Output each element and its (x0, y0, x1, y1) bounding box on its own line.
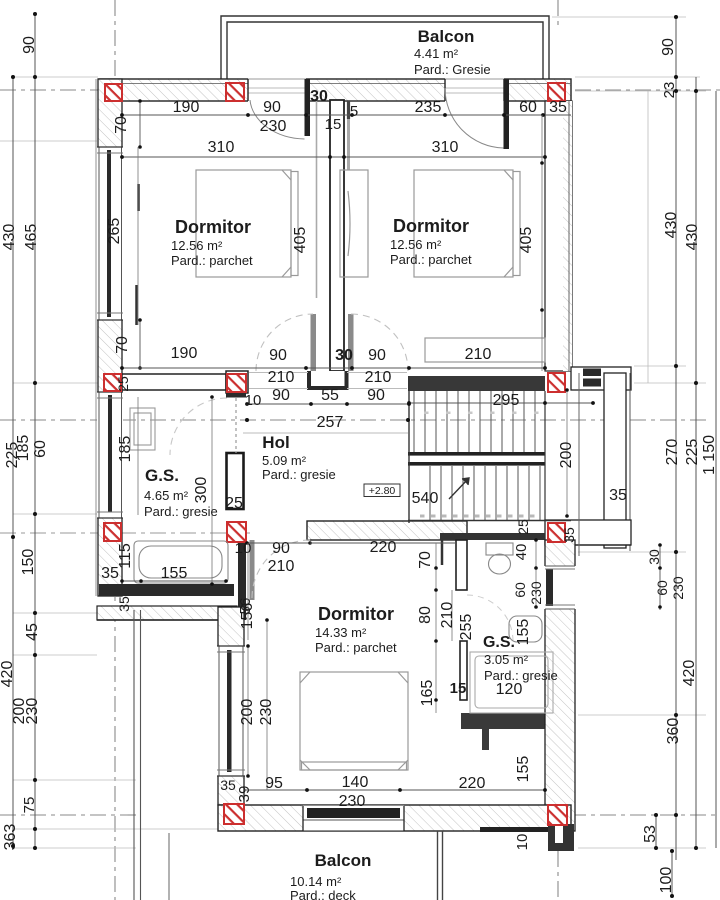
door G.S.2 arc (467, 595, 513, 641)
svg-text:12.56 m²: 12.56 m² (171, 238, 223, 253)
stairs middle rail (408, 452, 545, 466)
dimension chain left margin x=35 (15, 12, 41, 850)
svg-text:3.05 m²: 3.05 m² (484, 652, 529, 667)
wall G.S.2 north (dark) (440, 533, 545, 540)
label balcony bottom (290, 851, 371, 900)
column C5 (227, 374, 246, 392)
svg-text:25: 25 (225, 495, 243, 512)
svg-text:30: 30 (310, 88, 328, 105)
svg-text:70: 70 (114, 336, 131, 354)
dim 200 stair bay (558, 388, 575, 518)
dimension chain left margin x=13 (0, 75, 21, 850)
svg-text:230: 230 (339, 793, 366, 810)
svg-text:156: 156 (239, 603, 256, 630)
svg-text:270: 270 (664, 439, 681, 466)
wall bedroom2 south (dark) (408, 376, 545, 391)
svg-text:25: 25 (515, 519, 531, 535)
svg-text:95: 95 (265, 775, 283, 792)
wall strip hol west: middle (227, 453, 244, 509)
dim 70 left lower (114, 318, 142, 370)
svg-text:190: 190 (171, 345, 198, 362)
svg-text:225: 225 (684, 439, 701, 466)
svg-text:420: 420 (681, 660, 698, 687)
sink G.S.2 (509, 616, 542, 642)
svg-text:115: 115 (117, 543, 134, 569)
svg-text:60: 60 (519, 99, 537, 116)
dimension 100 bottom right (658, 849, 675, 898)
pier below right column (548, 824, 574, 851)
bed 3 lower bedroom (300, 672, 408, 770)
window left G.S. (97, 392, 123, 518)
dim chain y368 (120, 345, 547, 370)
svg-text:265: 265 (106, 218, 123, 245)
svg-text:190: 190 (173, 99, 200, 116)
wall right exterior upper (545, 101, 572, 371)
balcony left edge lines (134, 610, 169, 900)
svg-text:150: 150 (20, 549, 37, 576)
wall G.S.2 south (461, 713, 545, 729)
axis line horizontal y=90 (0, 89, 720, 91)
svg-text:39: 39 (236, 786, 253, 803)
door top-left leaf+arc (250, 79, 310, 139)
svg-text:430: 430 (684, 224, 701, 251)
shower G.S.2 (470, 652, 553, 713)
svg-text:310: 310 (432, 139, 459, 156)
svg-text:230: 230 (528, 581, 544, 605)
svg-text:Pard.: parchet: Pard.: parchet (390, 252, 472, 267)
svg-text:185: 185 (117, 436, 134, 463)
wall right exterior lower (545, 540, 575, 831)
svg-text:235: 235 (415, 99, 442, 116)
axis line horizontal y=420 (0, 419, 710, 421)
column C8 (227, 522, 246, 542)
door bedroom1 leaf+arc (256, 314, 316, 371)
svg-text:140: 140 (342, 774, 369, 791)
svg-text:200: 200 (239, 699, 256, 726)
stairs bottom edge (408, 376, 571, 523)
dim chain 310 310 y157 (120, 139, 547, 159)
svg-text:30: 30 (335, 347, 353, 364)
svg-text:300: 300 (193, 477, 210, 504)
level +2.80 (364, 484, 400, 497)
svg-text:220: 220 (459, 775, 486, 792)
svg-text:Balcon: Balcon (315, 851, 372, 870)
svg-text:255: 255 (458, 614, 475, 641)
svg-text:14.33 m²: 14.33 m² (315, 625, 367, 640)
dimension chain right margin x=696 (681, 77, 701, 850)
svg-text:100: 100 (658, 867, 675, 894)
column C10 (224, 804, 244, 824)
svg-text:430: 430 (663, 212, 680, 239)
svg-text:12.56 m²: 12.56 m² (390, 237, 442, 252)
dim 156 west (239, 543, 256, 640)
svg-text:Hol: Hol (262, 433, 289, 452)
door lower bedroom leaf+arc (250, 540, 311, 600)
svg-text:40: 40 (513, 544, 530, 561)
svg-text:Balcon: Balcon (418, 27, 475, 46)
svg-text:Pard.: parchet: Pard.: parchet (315, 640, 397, 655)
dim chain bottom y790 (220, 774, 547, 810)
dim chain top y115 (120, 99, 571, 135)
svg-text:10: 10 (514, 834, 531, 851)
svg-text:155: 155 (515, 756, 532, 783)
svg-text:70: 70 (417, 551, 434, 569)
balcony divider lines (438, 831, 443, 900)
svg-text:200: 200 (558, 442, 575, 469)
svg-text:90: 90 (368, 347, 386, 364)
wall jamb below (441, 540, 444, 565)
wall pier foot middle (309, 371, 347, 388)
wall exterior band below G.S. (97, 606, 237, 620)
svg-text:Pard.: deck: Pard.: deck (290, 888, 356, 900)
svg-text:45: 45 (24, 623, 41, 641)
wall stair bay bottom (545, 520, 631, 545)
label bedroom1 (171, 217, 253, 268)
wall west lower bedroom (218, 607, 244, 805)
svg-text:35: 35 (561, 527, 577, 543)
svg-text:1 150: 1 150 (701, 435, 718, 475)
wall G.S. left bottom dark band (99, 584, 234, 596)
toilet G.S.2 (486, 543, 513, 574)
dim 70 left (113, 99, 142, 149)
svg-text:Pard.: Gresie: Pard.: Gresie (414, 62, 491, 77)
dim 265 left window (106, 147, 138, 325)
svg-text:53: 53 (642, 825, 659, 843)
dresser right bedroom (425, 338, 545, 362)
axis line horizontal y=533 (0, 532, 250, 534)
door bedroom2 leaf+arc (348, 314, 408, 371)
stairs lower flight (430, 466, 540, 520)
dim door hol 90/210 (245, 540, 312, 575)
column C6 (548, 373, 565, 392)
window right G.S.2 (544, 566, 576, 609)
svg-text:35: 35 (220, 777, 236, 793)
wall G.S.2 west stub lower (460, 641, 467, 700)
wall stub below G.S.2 (482, 729, 489, 750)
wall hol south (307, 521, 467, 540)
dark edge segment balcony wall (480, 827, 548, 832)
axis line horizontal y=815 (0, 814, 720, 816)
door opening top-right (60) (445, 78, 504, 102)
svg-text:35: 35 (549, 99, 567, 116)
dim 200 230 west window (239, 618, 275, 790)
svg-text:Pard.: gresie: Pard.: gresie (484, 668, 558, 683)
column C4 (104, 374, 121, 391)
wall hol west strip upper (226, 371, 248, 393)
dimension labels left inner (11, 440, 49, 724)
dim 295 stairs (407, 392, 595, 409)
svg-text:Dormitor: Dormitor (393, 216, 469, 236)
wall strip below column (56) (238, 543, 246, 620)
balcony top labels (414, 27, 491, 77)
svg-text:+2.80: +2.80 (369, 485, 396, 497)
wall stair bay top with window (571, 367, 631, 390)
svg-text:230: 230 (24, 698, 41, 725)
svg-text:210: 210 (268, 558, 295, 575)
bed 1 left bedroom (196, 170, 298, 277)
svg-text:430: 430 (1, 224, 18, 251)
door G.S. left leaf+arc (170, 398, 236, 455)
axis line vertical x=558 (557, 0, 559, 900)
svg-text:60: 60 (32, 440, 49, 458)
bathtub G.S. left (134, 541, 228, 583)
svg-text:90: 90 (367, 387, 385, 404)
dim G.S. left bottom: 35 115 155 35 56 10 (101, 540, 254, 614)
svg-text:25: 25 (115, 376, 131, 392)
svg-text:405: 405 (518, 227, 535, 254)
dimension window right 30 60 230 (646, 543, 686, 610)
stairs direction arrow (449, 478, 469, 499)
svg-text:80: 80 (417, 606, 434, 624)
svg-text:4.65 m²: 4.65 m² (144, 488, 189, 503)
dimension 53 bottom right (642, 813, 659, 850)
wall left exterior (96, 79, 122, 596)
svg-text:90: 90 (660, 38, 677, 56)
dim 220 bedroom3 top (310, 539, 456, 556)
svg-text:225: 225 (4, 442, 21, 469)
wall stair bay east (604, 373, 630, 551)
stair landing edge (578, 373, 580, 556)
svg-text:310: 310 (208, 139, 235, 156)
stairs upper flight (414, 391, 535, 452)
svg-text:230: 230 (670, 576, 686, 600)
svg-text:90: 90 (21, 36, 38, 54)
dimension chain right margin x=716 (701, 91, 718, 848)
axis line vertical x=115 (114, 0, 116, 900)
svg-text:90: 90 (272, 540, 290, 557)
column C1 (105, 84, 122, 101)
dim 405 right (518, 115, 544, 371)
label hol (262, 433, 336, 482)
svg-text:Dormitor: Dormitor (318, 604, 394, 624)
wall middle between bedrooms (317, 100, 349, 371)
balcony top outline (221, 16, 549, 79)
svg-text:10: 10 (245, 392, 262, 409)
beam line hol (243, 432, 408, 434)
column C7 (104, 523, 121, 541)
svg-text:165: 165 (419, 680, 436, 707)
floor lines door openings (249, 373, 407, 389)
wardrobe right bedroom (340, 170, 368, 277)
svg-text:55: 55 (321, 387, 339, 404)
window west lower bedroom (217, 646, 245, 776)
glazed door to balcony (303, 806, 404, 832)
svg-text:155: 155 (515, 619, 532, 646)
dim G.S.2 cluster (417, 543, 438, 713)
svg-text:70: 70 (113, 116, 130, 134)
svg-text:Pard.: gresie: Pard.: gresie (262, 467, 336, 482)
column C9 (548, 523, 565, 542)
svg-text:75: 75 (21, 797, 38, 814)
label G.S. left (144, 466, 218, 519)
svg-text:35: 35 (116, 596, 132, 612)
label bedroom2 (390, 216, 472, 267)
svg-text:23: 23 (661, 82, 678, 99)
svg-text:363: 363 (2, 824, 19, 851)
door opening top-left (90/230) (248, 78, 306, 102)
svg-text:155: 155 (161, 565, 188, 582)
wall strip hol west: piece above door (226, 393, 246, 398)
svg-text:230: 230 (258, 699, 275, 726)
svg-text:90: 90 (272, 387, 290, 404)
svg-text:5.09 m²: 5.09 m² (262, 453, 307, 468)
svg-text:Dormitor: Dormitor (175, 217, 251, 237)
svg-text:G.S.: G.S. (145, 466, 179, 485)
svg-text:35: 35 (609, 487, 627, 504)
svg-text:90: 90 (269, 347, 287, 364)
svg-text:60: 60 (512, 582, 528, 598)
svg-text:210: 210 (465, 346, 492, 363)
wall G.S.2 west stub upper (456, 540, 467, 590)
svg-text:4.41 m²: 4.41 m² (414, 46, 459, 61)
dim 257 axis (245, 414, 410, 431)
svg-text:210: 210 (439, 602, 456, 629)
wall south balcony band (218, 805, 571, 831)
dimension chain right margin x=676 (660, 15, 682, 860)
svg-text:60: 60 (654, 580, 670, 596)
dim line marks left bedroom window (137, 184, 139, 325)
svg-text:540: 540 (412, 490, 439, 507)
door top-right leaf+arc (445, 79, 509, 149)
svg-text:405: 405 (292, 227, 309, 254)
label bedroom3 (315, 604, 397, 655)
svg-text:230: 230 (260, 118, 287, 135)
svg-text:120: 120 (496, 681, 523, 698)
svg-text:210: 210 (268, 369, 295, 386)
label G.S.2 (483, 634, 558, 683)
wall top exterior (99, 79, 571, 101)
window left bedroom1 (97, 147, 123, 320)
washbasin G.S. left (130, 408, 155, 450)
stairs right wall face (544, 391, 546, 521)
wall G.S. top (122, 374, 226, 390)
svg-text:220: 220 (370, 539, 397, 556)
svg-text:360: 360 (665, 718, 682, 745)
column C3 (548, 83, 565, 101)
stairs step numbers (420, 515, 535, 518)
svg-text:90: 90 (263, 99, 281, 116)
svg-text:G.S.: G.S. (483, 634, 515, 651)
column C11 (548, 805, 567, 825)
svg-text:210: 210 (365, 369, 392, 386)
svg-text:15: 15 (325, 116, 342, 133)
svg-text:10.14 m²: 10.14 m² (290, 874, 342, 889)
bed 2 right bedroom (414, 170, 520, 277)
svg-text:257: 257 (317, 414, 344, 431)
svg-text:Pard.: gresie: Pard.: gresie (144, 504, 218, 519)
svg-text:295: 295 (493, 392, 520, 409)
svg-text:Pard.: parchet: Pard.: parchet (171, 253, 253, 268)
svg-text:5: 5 (350, 103, 358, 120)
svg-text:465: 465 (23, 224, 40, 251)
svg-text:420: 420 (0, 661, 16, 688)
dim chain hol y404 (245, 387, 411, 409)
column C2 (226, 83, 244, 101)
svg-text:30: 30 (646, 549, 662, 565)
svg-text:15: 15 (450, 680, 467, 697)
